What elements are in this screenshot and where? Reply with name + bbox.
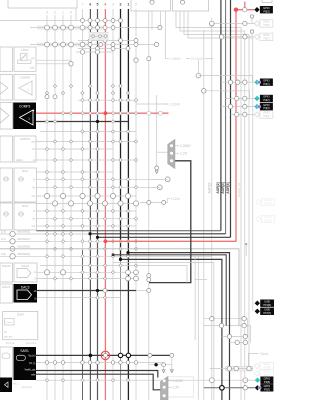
svg-text:GPIO: GPIO	[263, 33, 270, 37]
svg-text:ExVrefL2: ExVrefL2	[22, 386, 33, 389]
switches: comparator input row markers	[45, 84, 129, 94]
wire: USB flag elbows	[210, 317, 251, 343]
svg-text:ABUSR(3): ABUSR(3)	[17, 230, 30, 234]
svg-text:Vp (+): Vp (+)	[28, 354, 35, 357]
svg-text:3: 3	[112, 3, 114, 7]
net: ABUSR(2) row	[0, 255, 212, 257]
wire: abus stub bus from top-left box	[0, 8, 76, 21]
svg-text:P15[7]: P15[7]	[263, 311, 271, 315]
wire: right side vertical nets AGR columns	[204, 0, 231, 400]
block: COMP2 (cut)	[0, 103, 13, 130]
svg-text:ref: ref	[32, 148, 35, 151]
svg-text:1.024V: 1.024V	[172, 379, 183, 383]
svg-text:P0[3]: P0[3]	[263, 9, 269, 13]
pin flag: GPIO P0[3] (red net, black)	[254, 7, 259, 12]
block: LPF0 (cut)	[0, 47, 13, 71]
value label: 1.024V stub upper	[147, 57, 151, 61]
svg-text:out: out	[32, 195, 36, 198]
svg-text:3: 3	[46, 11, 48, 15]
svg-text:P3[6]: P3[6]	[264, 380, 270, 384]
wire: light row y262.6 elbow down right	[113, 263, 214, 400]
wire: stub circles below top-middle box	[210, 22, 214, 26]
block: CAPS0 (cut)	[0, 136, 13, 162]
block: tiny top-right box	[262, 0, 272, 3]
svg-text:vss_ext: vss_ext	[4, 336, 12, 339]
svg-text:DAC3: DAC3	[21, 286, 30, 290]
component: vref mux U_vref1	[168, 140, 175, 169]
svg-text:CAPS1: CAPS1	[20, 137, 30, 141]
svg-text:ExVrefL: ExVrefL	[6, 342, 15, 345]
net: vref mux1 output bold route	[149, 161, 191, 283]
svg-text:refbuf: refbuf	[16, 159, 23, 162]
svg-text:P15[0]: P15[0]	[264, 202, 272, 206]
net labels: abus 3 2 1 0	[46, 11, 72, 15]
svg-text:P1[4]: P1[4]	[264, 366, 270, 370]
wire: stub above feed circle	[197, 60, 199, 76]
wire: upper terminal rows with highlight bands	[30, 19, 162, 47]
net: ABUSR(3) row	[0, 233, 90, 235]
block: COMP3 (active, black)	[13, 103, 36, 130]
value label: 1.024V row y104	[136, 103, 168, 105]
svg-text:out: out	[32, 225, 36, 228]
ground: vss arrows above mux2	[154, 363, 157, 366]
wire: terminal circles column x148.8	[147, 274, 151, 282]
svg-text:LPF1: LPF1	[21, 48, 29, 52]
junction: small gray dot right of red elbow	[245, 243, 247, 245]
pin flag: VBUS faint upper	[256, 199, 261, 204]
value labels: mux1 inputs 1.024V / 1.2V	[175, 145, 179, 147]
svg-text:USB: USB	[264, 299, 270, 303]
value label: ExVrefR stub upper	[186, 58, 190, 60]
svg-text:L(2): L(2)	[1, 252, 6, 256]
svg-text:GPIO: GPIO	[264, 384, 271, 388]
block: DAC2 (cut)	[0, 284, 13, 303]
net: highlighted selection band upper	[89, 32, 108, 40]
svg-text:ABUSR(2): ABUSR(2)	[17, 252, 30, 256]
svg-text:1.2V: 1.2V	[180, 152, 188, 156]
wire: bus terminal rows y48.5 and y52	[76, 47, 130, 55]
svg-text:L(1): L(1)	[1, 237, 6, 241]
svg-text:P3[2]: P3[2]	[263, 98, 269, 102]
svg-text:COMP1: COMP1	[19, 76, 30, 80]
svg-text:AGR[0]: AGR[0]	[207, 183, 211, 194]
svg-text:GPIO: GPIO	[263, 362, 270, 366]
pin flag: USB P15[7] (black)	[255, 309, 260, 314]
wire: GPIO flag feed rows (top group)	[210, 15, 255, 39]
svg-text:ExVrefL1: ExVrefL1	[26, 342, 37, 345]
pin terminals on top-middle boxes	[150, 0, 185, 4]
switches: ABUSR row markers	[45, 232, 137, 258]
value labels: mux2 inputs 1.024V / 1.2V	[168, 380, 172, 382]
svg-text:2: 2	[54, 11, 56, 15]
wire: sc block output stubs	[149, 179, 168, 187]
wire: upper feed elbows from left verticals to flags	[196, 73, 252, 98]
svg-text:ref: ref	[4, 331, 7, 334]
net: AGL5 tap bold elbow	[96, 236, 231, 239]
wire: bottom right rows with terminals	[222, 334, 248, 344]
wire: middle vertical nets	[149, 11, 199, 400]
svg-text:DSM0: DSM0	[6, 322, 13, 324]
net: DAC3 x3 output bold row	[37, 289, 151, 293]
net: SAR1 refs bold row to vref mux2	[36, 374, 161, 390]
net: COMP3 second output dark route	[36, 120, 128, 123]
svg-text:Vn (-): Vn (-)	[29, 362, 35, 365]
svg-text:DAC0: DAC0	[2, 264, 11, 268]
wire: bottom flag feed circles	[209, 378, 214, 383]
svg-text:ABUSR(1): ABUSR(1)	[17, 237, 30, 241]
svg-text:L(3): L(3)	[1, 230, 6, 234]
svg-text:out: out	[31, 141, 35, 144]
svg-text:ABUSR(0): ABUSR(0)	[17, 244, 30, 248]
svg-text:7: 7	[82, 3, 84, 7]
block: SC0 (cut)	[0, 168, 13, 202]
wire: LPF1 outputs	[36, 60, 71, 64]
svg-text:6: 6	[89, 3, 91, 7]
svg-text:1.024V: 1.024V	[170, 57, 181, 61]
svg-text:P3[1]: P3[1]	[263, 82, 269, 86]
net: ABUSR(0) row	[10, 246, 15, 251]
svg-text:AGR[2]: AGR[2]	[216, 182, 220, 193]
pin flag: GPIO P1[5] (faint gray)	[254, 371, 259, 376]
svg-text:0: 0	[135, 3, 137, 7]
net: SAR1 Vp input bold row	[36, 351, 174, 359]
svg-text:P3[3]: P3[3]	[263, 106, 269, 110]
net: Vssd stub	[248, 352, 268, 368]
pin flag: GPIO P3[2] (black, cyan lock)	[254, 96, 259, 101]
svg-text:SC3: SC3	[22, 204, 28, 208]
svg-text:GPIO: GPIO	[264, 376, 271, 380]
wire: light elbows right of mux route	[195, 256, 207, 340]
svg-text:4: 4	[104, 3, 106, 7]
net: bottom bold row to GPIO flag	[204, 386, 255, 391]
svg-text:AGR[6]: AGR[6]	[226, 182, 230, 193]
svg-text:1.024V: 1.024V	[170, 102, 181, 106]
svg-text:P15[6]: P15[6]	[263, 303, 271, 307]
svg-text:VBUS: VBUS	[264, 198, 271, 202]
net: SAR1 Vrefhi_out bold row to vref mux2	[36, 371, 158, 378]
svg-text:GPIO: GPIO	[263, 370, 270, 374]
component: vref mux U_vref2	[161, 377, 169, 400]
wire: analog routing grid rows	[36, 100, 251, 380]
block: COMP0 (cut)	[0, 75, 13, 101]
svg-text:GPIO: GPIO	[263, 20, 270, 24]
svg-text:2: 2	[120, 3, 122, 7]
wire: analog local bus columns abus[3:0]	[47, 21, 71, 400]
wire: LPF terminal circles	[45, 58, 138, 99]
svg-text:out: out	[31, 57, 35, 60]
net: COMP3 output red route	[36, 111, 169, 115]
block: CAPS1	[14, 136, 36, 162]
svg-text:COMP3: COMP3	[19, 104, 31, 108]
svg-text:out1: out1	[30, 67, 35, 70]
block: top-middle resource box A	[131, 0, 171, 11]
pin flag: USB P15[6] (black)	[255, 301, 260, 306]
pin flag: GPIO P3[1] (black, cyan lock)	[254, 80, 259, 85]
svg-text:P15[1]: P15[1]	[264, 219, 272, 223]
block: top-middle resource box B	[172, 0, 208, 11]
wire: analog global bus AGL[7:0] vertical lines	[83, 9, 137, 400]
svg-text:SAR1: SAR1	[20, 349, 29, 353]
svg-text:P0[7]: P0[7]	[263, 36, 269, 40]
svg-text:1.024v: 1.024v	[171, 197, 181, 201]
block: DAC3 (active, black)	[14, 284, 38, 303]
pin flag: GPIO P0[7] (gray)	[254, 34, 259, 39]
wire: GPIO flag feed rows (middle group)	[221, 80, 255, 117]
block: SC1	[14, 168, 36, 202]
svg-text:ExVrefR_sar: ExVrefR_sar	[237, 183, 241, 198]
svg-text:GPIO: GPIO	[263, 111, 270, 115]
block: SAR0 (cut)	[0, 347, 13, 380]
svg-text:DAC2: DAC2	[2, 285, 11, 289]
pin flag: GPIO P3[3] (black, cyan+purple)	[254, 104, 259, 109]
svg-text:ExVrefR: ExVrefR	[191, 57, 204, 61]
block: DAC1	[14, 263, 37, 282]
block: SC3	[14, 203, 36, 230]
net labels: analog global bus AGL 7..0	[82, 3, 138, 7]
svg-text:Vssd: Vssd	[260, 352, 268, 356]
ground: vss stub with arrow below mux1	[157, 151, 168, 153]
switches: routing matrix diamonds and circles	[44, 98, 170, 382]
svg-text:GPIO: GPIO	[263, 78, 270, 82]
pin flag: GPIO P3[7] (black, purple)	[255, 385, 260, 390]
svg-text:DSM: DSM	[17, 313, 24, 317]
net: highlighted net box row (bottom right)	[210, 366, 253, 371]
pin flag: GPIO P0[5] (gray)	[254, 21, 259, 26]
wire: light outline around DAC rows	[136, 266, 187, 283]
block: DAC0 (cut)	[0, 263, 13, 282]
wire: ExVrefR wire right extension	[205, 58, 214, 60]
net: red route AGL4 to GPIO flag	[104, 2, 255, 244]
svg-text:GPIO: GPIO	[263, 6, 270, 10]
svg-text:P3[4]: P3[4]	[263, 114, 269, 118]
pin flag: GPIO P3[6] (black, cyan lock)	[255, 378, 260, 383]
block: COMP1	[14, 75, 36, 101]
svg-text:AGR[4]: AGR[4]	[221, 182, 225, 193]
net: AGL6 tap to AGR via bold elbow	[36, 231, 225, 235]
svg-text:P0[5]: P0[5]	[263, 23, 269, 27]
svg-text:P1[5]: P1[5]	[264, 373, 270, 377]
svg-text:Vrefhi_out: Vrefhi_out	[24, 368, 35, 371]
net: AGL2 tap bold elbow	[119, 258, 222, 400]
svg-text:P3[7]: P3[7]	[264, 387, 270, 391]
svg-text:GPIO: GPIO	[263, 103, 270, 107]
block: SC2 (cut)	[0, 203, 13, 230]
svg-text:5: 5	[97, 3, 99, 7]
svg-text:0: 0	[70, 11, 72, 15]
svg-text:1: 1	[127, 3, 129, 7]
svg-text:VBUS: VBUS	[264, 215, 271, 219]
svg-text:GPIO: GPIO	[263, 95, 270, 99]
svg-text:DAC1: DAC1	[21, 264, 30, 268]
net: ABUSR(1) row	[0, 240, 105, 242]
svg-text:1: 1	[62, 11, 64, 15]
net: AGL1 tap bold elbow	[0, 249, 239, 400]
block: bottom-left black block (cut)	[0, 378, 12, 393]
block: SAR1 (active, black)	[14, 347, 37, 380]
svg-text:1.2V: 1.2V	[172, 386, 180, 390]
svg-text:1.024V: 1.024V	[180, 144, 191, 148]
wire: elbow nets from top into right-side columns	[176, 11, 253, 400]
pin flag: VBUS faint lower	[256, 216, 261, 221]
block: DSM	[3, 312, 38, 340]
pin flag: GPIO P3[4] (gray)	[254, 112, 259, 117]
block: top-left resource box	[8, 0, 77, 8]
svg-text:SC1: SC1	[22, 169, 28, 173]
block: LPF1	[14, 47, 36, 71]
pin flag: GPIO P1[4] (faint gray)	[254, 363, 259, 368]
value label: 1.024v row	[140, 199, 170, 203]
svg-text:USB: USB	[264, 308, 270, 312]
